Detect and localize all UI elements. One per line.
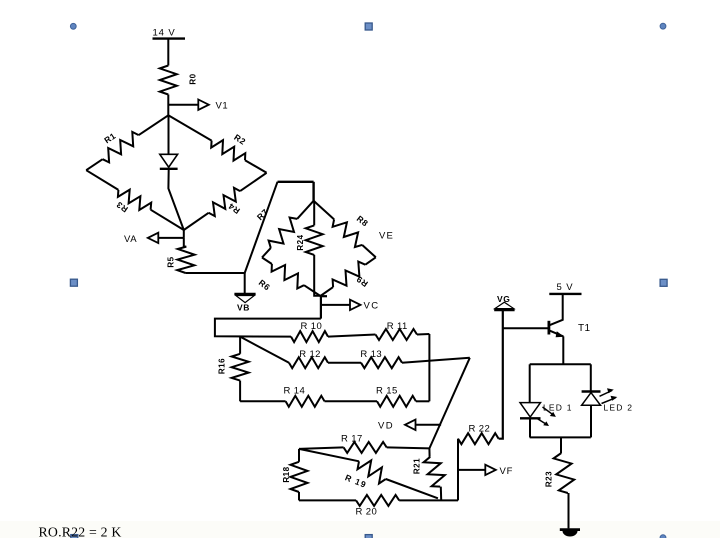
label R14 — [284, 386, 306, 397]
resistor R15 — [377, 396, 416, 407]
wire LED2 anode lead — [590, 364, 592, 391]
label R13 — [360, 349, 382, 360]
resistor R18 — [291, 462, 308, 492]
wire node V1 to R1 — [139, 115, 169, 135]
label VD — [378, 420, 394, 431]
svg-text:VF: VF — [500, 466, 514, 477]
wire diagonal peak to node R21 — [429, 358, 469, 449]
LED D-LED2 — [582, 392, 601, 406]
handle mid-left — [70, 279, 77, 286]
wire node V1 to R2 — [168, 115, 211, 140]
wire R3 to node VA — [151, 210, 184, 230]
wire 14V to R0 — [167, 39, 169, 66]
label LED 2 — [604, 403, 634, 413]
wire R4 to node VA — [184, 213, 209, 230]
terminal arrow VA — [148, 233, 159, 243]
label R12 — [299, 349, 321, 360]
terminal arrow VD — [405, 420, 416, 430]
label R7 — [255, 207, 270, 222]
svg-text:R 17: R 17 — [341, 434, 363, 445]
resistor R6 — [272, 264, 304, 289]
resistor R20 — [356, 495, 399, 506]
wire node VE-top to R24 — [313, 201, 315, 226]
svg-text:R0: R0 — [189, 73, 198, 84]
label R23 — [544, 471, 553, 487]
wire node VE-top to R7 — [297, 201, 314, 219]
label R17 — [341, 434, 363, 445]
caption RO.R22 = 2 K — [39, 525, 122, 538]
wire right bus — [428, 334, 430, 401]
wire bottom rail left — [299, 499, 356, 501]
svg-text:VB: VB — [237, 302, 250, 312]
wire VF tap — [458, 469, 486, 471]
transistor T1 emitter — [550, 331, 565, 338]
wire LED1 cathode lead — [529, 418, 531, 437]
svg-text:R 13: R 13 — [360, 349, 382, 360]
resistor R14 — [286, 396, 325, 407]
label R19 — [344, 472, 369, 490]
wire VA to R5 — [184, 238, 187, 247]
power label 5 V — [557, 282, 574, 293]
wire top rail to node VE-top — [312, 182, 314, 201]
wire diode D1 to node VA — [168, 169, 183, 230]
power rail bar 14V — [153, 37, 186, 39]
wire VD tap — [416, 424, 442, 426]
label LED 1 — [543, 403, 573, 413]
label VA — [124, 234, 137, 245]
wire R16 to R14 — [240, 400, 286, 402]
handle top-left — [70, 23, 76, 29]
wire emitter down — [562, 336, 564, 364]
resistor R22 — [458, 433, 499, 444]
wire R24 to node VC — [314, 255, 320, 296]
wire node R18-top to R19 — [299, 449, 359, 461]
LED D-LED1 — [520, 403, 541, 419]
wire node V1 to diode D1 — [168, 115, 170, 154]
label R10 — [301, 321, 323, 332]
svg-text:VE: VE — [379, 230, 394, 241]
svg-text:5 V: 5 V — [557, 282, 574, 293]
label R15 — [376, 386, 398, 397]
wire R18 bottom lead — [298, 492, 300, 500]
label VC — [364, 301, 380, 312]
wire node VE-top to R8 — [314, 201, 335, 220]
wire R22 to VG line — [499, 310, 503, 439]
svg-text:VD: VD — [378, 420, 394, 431]
label R5 — [166, 256, 175, 267]
svg-text:R21: R21 — [412, 458, 421, 474]
label R18 — [282, 466, 291, 482]
label R8 — [355, 213, 371, 228]
wire V1 tap — [168, 104, 198, 106]
label R3 — [114, 199, 129, 214]
label R4 — [226, 201, 241, 216]
wire node R16-top to R12 — [239, 336, 289, 362]
terminal VG — [494, 302, 514, 310]
wire LED2 cathode lead — [590, 405, 592, 437]
wire node VA stub — [183, 230, 185, 238]
wire R19 to bottom rail — [386, 479, 438, 498]
svg-text:R 22: R 22 — [469, 424, 491, 435]
wire LED box top — [530, 363, 591, 365]
resistor R7 — [269, 218, 298, 248]
label R24 — [296, 234, 305, 250]
label VG — [497, 294, 510, 304]
wire R10 to R11 — [328, 335, 376, 337]
power label 14 V — [153, 28, 176, 39]
resistor R2 — [211, 140, 245, 161]
label R6 — [257, 277, 273, 292]
terminal arrow VF — [485, 465, 496, 475]
wire R11 to right bus — [417, 333, 429, 336]
resistor R13 — [361, 357, 402, 368]
label V1 — [216, 100, 229, 111]
label VF — [500, 466, 514, 477]
wire VA tap — [158, 237, 184, 239]
wire R13 to diagonal peak — [402, 358, 470, 363]
wire bottom rail right — [399, 499, 458, 501]
wire R12 to R13 — [328, 362, 361, 364]
svg-text:14 V: 14 V — [153, 28, 176, 39]
wire node R18-top to R17 — [299, 447, 344, 449]
wire R0 to node V1 — [167, 95, 169, 116]
transistor T1 collector — [550, 294, 563, 325]
label R2 — [232, 132, 247, 147]
wire R9 to node VC — [320, 287, 333, 296]
resistor R17 — [344, 442, 387, 453]
wire R15 to right bus — [416, 400, 430, 402]
wire R8 to bridge2 right vertex — [362, 245, 376, 257]
wire R7 to bridge2 left vertex — [262, 248, 271, 258]
label VE — [379, 230, 394, 241]
wire R2 to node right — [245, 160, 267, 173]
svg-text:R 10: R 10 — [301, 321, 323, 332]
resistor R8 — [333, 219, 363, 247]
svg-text:R 11: R 11 — [387, 321, 408, 332]
resistor R9 — [333, 262, 366, 288]
LED2 light arrows — [600, 388, 618, 403]
wire ladder top rail — [215, 319, 321, 337]
wire node left to R3 — [86, 170, 118, 190]
label T1 — [578, 323, 591, 334]
wire node VC down — [320, 296, 322, 319]
label VB — [237, 302, 250, 312]
resistor R24 — [306, 225, 323, 255]
wire node R21 stub — [428, 448, 430, 456]
wire box to R23 — [560, 437, 562, 453]
resistor R10 — [291, 331, 328, 342]
handle top-right — [660, 23, 666, 29]
handle top-center — [365, 23, 372, 30]
wire R21 bottom lead — [440, 487, 442, 500]
svg-text:R 15: R 15 — [376, 386, 398, 397]
svg-text:R16: R16 — [217, 358, 226, 374]
label R1 — [102, 131, 117, 146]
resistor R12 — [289, 357, 328, 368]
resistor R3 — [118, 190, 151, 210]
wire base T1 — [503, 327, 549, 329]
svg-text:R 20: R 20 — [356, 506, 378, 517]
svg-text:LED 1: LED 1 — [543, 403, 573, 413]
svg-text:R5: R5 — [166, 256, 175, 267]
terminal arrow V1 — [198, 100, 209, 110]
resistor R19 — [358, 460, 386, 483]
diode D1 — [160, 154, 178, 169]
faint bottom strip — [0, 521, 720, 538]
transistor T1 base bar — [548, 321, 551, 335]
wire R6 to node VC — [304, 285, 320, 296]
terminal VB — [234, 294, 255, 303]
svg-text:R18: R18 — [282, 466, 291, 482]
resistor R21 — [424, 457, 445, 487]
svg-text:R23: R23 — [544, 471, 553, 487]
svg-text:VG: VG — [497, 294, 510, 304]
wire bridge2 right vertex to R9 — [365, 257, 376, 264]
resistor R5 — [177, 247, 194, 273]
label R16 — [217, 358, 226, 374]
resistor R11 — [376, 329, 418, 340]
wire bridge2 left vertex to R6 — [262, 258, 272, 265]
wire R14 to R15 — [325, 400, 378, 402]
junction node VC — [321, 295, 327, 297]
wire R17 to node R21 — [387, 447, 430, 448]
svg-text:RO.R22 = 2 K: RO.R22 = 2 K — [39, 525, 122, 538]
label R22 — [469, 424, 491, 435]
wire bridge2 top rail — [278, 181, 314, 183]
label R20 — [356, 506, 378, 517]
power rail bar 5V — [549, 293, 581, 295]
label R0 — [189, 73, 198, 84]
wire LED1 anode lead — [529, 364, 531, 402]
wire R18 top lead — [298, 449, 300, 462]
wire node VB to bridge2 top-left — [245, 182, 278, 273]
resistor R16 — [232, 354, 249, 381]
label R9 — [354, 274, 369, 289]
wire R22 left lead down — [457, 439, 459, 501]
resistor R4 — [209, 188, 241, 216]
svg-text:R 14: R 14 — [284, 386, 306, 397]
wire node right to R4 — [240, 173, 267, 191]
svg-text:LED 2: LED 2 — [604, 403, 634, 413]
handle bottom-left — [71, 535, 78, 538]
handle mid-right — [660, 279, 667, 286]
resistor R23 — [554, 453, 575, 493]
label R21 — [412, 458, 421, 474]
LED1 light arrows — [538, 407, 556, 426]
wire R1 to node left — [86, 159, 102, 170]
label R11 — [387, 321, 408, 332]
wire R23 to ground — [568, 493, 570, 528]
wire VC tap — [321, 304, 350, 306]
svg-text:T1: T1 — [578, 323, 591, 334]
svg-text:R 12: R 12 — [299, 349, 321, 360]
handle bottom-center — [365, 535, 372, 538]
ground — [560, 530, 580, 537]
svg-text:R24: R24 — [296, 234, 305, 250]
wire LED box bottom — [530, 436, 591, 438]
wire R16 bottom lead — [239, 381, 241, 402]
handle bottom-right — [660, 535, 666, 538]
svg-text:VC: VC — [364, 301, 380, 312]
wire R5 to node VB — [186, 272, 245, 274]
wire R16 top lead — [239, 336, 241, 354]
svg-text:V1: V1 — [216, 100, 229, 111]
wire node VB stub — [244, 273, 246, 294]
resistor R0 — [160, 66, 177, 95]
terminal arrow VC — [350, 300, 361, 310]
resistor R1 — [103, 132, 139, 163]
svg-text:VA: VA — [124, 234, 137, 245]
